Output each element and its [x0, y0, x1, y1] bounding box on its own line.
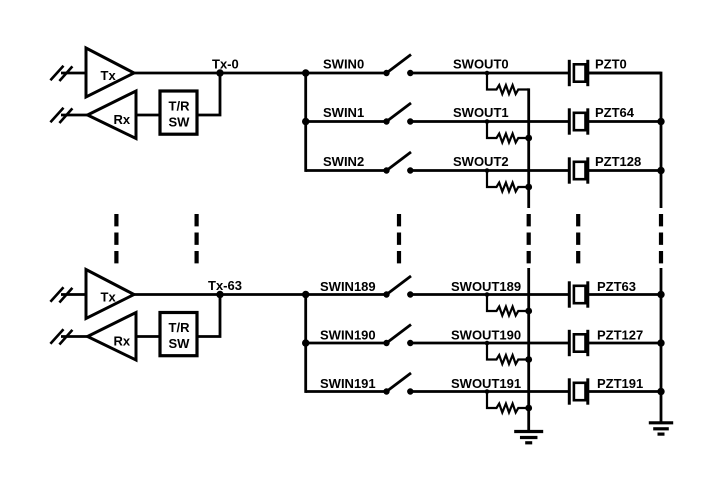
transducer PZT191 left plate	[568, 378, 571, 404]
continuation dashes amplifier column	[114, 214, 118, 264]
svg-text:PZT191: PZT191	[597, 376, 643, 391]
switch SWIN2 pole contact (left)	[383, 167, 389, 173]
svg-text:SWOUT189: SWOUT189	[451, 279, 521, 294]
transducer PZT128 right plate	[586, 157, 589, 183]
junction dot at resistor tap of R-SWOUT1	[485, 119, 490, 124]
wire bottom Rx output	[61, 335, 88, 338]
transducer PZT127 right plate	[586, 330, 589, 356]
label SWOUT2	[453, 154, 509, 169]
label SWOUT190	[451, 327, 521, 342]
svg-text:Rx: Rx	[114, 334, 131, 349]
wire SWOUT1 row from switch to transducer	[410, 120, 569, 123]
wire SWIN191 row from branch bus to switch	[306, 390, 387, 393]
switch SWIN0 lever	[387, 55, 412, 74]
wire top T/R SW to node Tx-0	[197, 73, 220, 115]
wire SWOUT190 row from switch to transducer	[410, 342, 569, 345]
continuation dashes transducer column	[576, 214, 580, 264]
label PZT63	[597, 279, 636, 294]
op-amp top Rx amp (Rx amplifier triangle)	[88, 91, 137, 139]
wire SWIN branch bus (bottom)	[304, 295, 307, 393]
svg-text:SWOUT0: SWOUT0	[453, 56, 509, 71]
bus-width slash marks on top Rx input	[50, 108, 72, 123]
label T/R SW inside top T/R SW	[169, 99, 191, 130]
wire PZT128 to right return bus	[588, 169, 661, 172]
wire resistor summing bus (bottom)	[527, 268, 530, 432]
switch SWIN190 pole contact (left)	[383, 340, 389, 346]
switch SWIN189 lever	[387, 276, 412, 295]
switch SWIN189 throw contact (right)	[407, 291, 413, 297]
continuation dashes switch column	[397, 214, 401, 264]
switch SWIN0 pole contact (left)	[383, 70, 389, 76]
junction SWIN bus row SWIN190	[302, 339, 309, 346]
resistor R-SWOUT2	[487, 171, 529, 192]
label Rx inside bottom Rx amp	[114, 334, 131, 349]
wire top Rx to T/R SW	[136, 114, 160, 117]
svg-text:Tx-63: Tx-63	[208, 278, 242, 293]
junction dot at resistor tap of R-SWOUT191	[485, 389, 490, 394]
label SWIN1	[323, 105, 364, 120]
label SWIN190	[320, 327, 376, 342]
transducer PZT63 right plate	[586, 281, 589, 307]
wire resistor summing bus (top)	[527, 88, 530, 208]
label Tx inside top Tx amp	[101, 68, 117, 83]
transducer PZT63 left plate	[568, 281, 571, 307]
transducer PZT191 right plate	[586, 378, 589, 404]
label PZT128	[595, 154, 641, 169]
wire bottom Rx to T/R SW	[136, 335, 160, 338]
label Rx inside top Rx amp	[114, 112, 131, 127]
junction summing bus at R-SWOUT190	[525, 356, 532, 363]
label SWIN0	[323, 56, 364, 71]
junction SWIN bus row SWIN189	[302, 291, 309, 298]
junction right bus at PZT128	[657, 167, 664, 174]
label SWOUT1	[453, 105, 509, 120]
wire PZT0 to right return bus	[588, 72, 661, 75]
transducer PZT128 piezo element box	[574, 162, 586, 179]
wire bottom T/R SW to node Tx-63	[197, 295, 220, 337]
transducer PZT0 right plate	[586, 60, 589, 86]
wire SWOUT2 row from switch to transducer	[410, 169, 569, 172]
T/R switch block bottom T/R SW	[160, 313, 197, 356]
svg-text:SWIN190: SWIN190	[320, 327, 376, 342]
transducer PZT64 left plate	[568, 108, 571, 134]
switch SWIN189 pole contact (left)	[383, 291, 389, 297]
wire right return bus (top)	[588, 73, 661, 208]
label PZT191	[597, 376, 643, 391]
bus-width slash marks on bottom Rx input	[50, 329, 72, 344]
resistor R-SWOUT190	[487, 343, 529, 364]
svg-text:SWIN0: SWIN0	[323, 56, 364, 71]
switch SWIN1 lever	[387, 103, 412, 122]
continuation dashes summing bus column	[527, 214, 531, 264]
continuation dashes right return bus column	[659, 214, 663, 264]
op-amp top Tx amp (Tx amplifier triangle)	[86, 48, 134, 97]
junction summing bus at R-SWOUT2	[525, 184, 532, 191]
junction right bus at PZT63	[657, 291, 664, 298]
switch SWIN190 lever	[387, 325, 412, 344]
wire SWOUT189 row from switch to transducer	[410, 293, 569, 296]
wire PZT127 to right return bus	[588, 342, 661, 345]
resistor R-SWOUT189	[487, 295, 529, 316]
label Tx inside bottom Tx amp	[101, 290, 117, 305]
svg-text:SWIN189: SWIN189	[320, 279, 376, 294]
svg-text:PZT0: PZT0	[595, 56, 627, 71]
wire SWIN branch bus (top)	[304, 73, 307, 172]
svg-text:SWOUT1: SWOUT1	[453, 105, 509, 120]
svg-text:Tx-0: Tx-0	[212, 56, 239, 71]
junction right bus at PZT64	[657, 118, 664, 125]
bus-width slash marks on top Tx input	[50, 66, 72, 81]
junction right bus at PZT127	[657, 339, 664, 346]
svg-text:SWIN1: SWIN1	[323, 105, 364, 120]
junction dot at resistor tap of R-SWOUT189	[485, 292, 490, 297]
label SWOUT189	[451, 279, 521, 294]
switch SWIN191 pole contact (left)	[383, 388, 389, 394]
junction dot at resistor tap of R-SWOUT2	[485, 168, 490, 173]
transducer PZT128 left plate	[568, 157, 571, 183]
svg-text:SWIN2: SWIN2	[323, 154, 364, 169]
svg-text:PZT127: PZT127	[597, 327, 643, 342]
svg-text:Rx: Rx	[114, 112, 131, 127]
transducer PZT191 piezo element box	[574, 383, 586, 400]
label SWIN189	[320, 279, 376, 294]
ground summing bus ground	[514, 432, 543, 443]
switch SWIN190 throw contact (right)	[407, 340, 413, 346]
switch SWIN2 lever	[387, 152, 412, 171]
switch SWIN191 lever	[387, 373, 412, 392]
switch SWIN191 throw contact (right)	[407, 388, 413, 394]
label SWIN2	[323, 154, 364, 169]
wire top Tx output to switches	[134, 72, 387, 75]
svg-text:Tx: Tx	[101, 68, 117, 83]
node Tx-0	[216, 69, 223, 76]
node Tx-63	[216, 291, 223, 298]
label T/R SW inside bottom T/R SW	[169, 320, 191, 351]
junction summing bus at R-SWOUT1	[525, 135, 532, 142]
label SWIN191	[320, 376, 376, 391]
label PZT0	[595, 56, 627, 71]
svg-text:SWIN191: SWIN191	[320, 376, 376, 391]
junction dot at resistor tap of R-SWOUT0	[485, 71, 490, 76]
transducer PZT127 piezo element box	[574, 334, 586, 351]
wire SWIN1 row from branch bus to switch	[306, 120, 387, 123]
svg-text:SWOUT190: SWOUT190	[451, 327, 521, 342]
junction dot at resistor tap of R-SWOUT190	[485, 341, 490, 346]
svg-text:PZT128: PZT128	[595, 154, 641, 169]
bus-width slash marks on bottom Tx input	[50, 287, 72, 302]
svg-text:SWOUT2: SWOUT2	[453, 154, 509, 169]
label SWOUT0	[453, 56, 509, 71]
switch SWIN2 throw contact (right)	[407, 167, 413, 173]
label Tx-0	[212, 56, 239, 71]
label SWOUT191	[451, 376, 521, 391]
junction SWIN bus row SWIN1	[302, 118, 309, 125]
resistor R-SWOUT0	[487, 73, 529, 94]
wire bottom Tx output to switches	[134, 293, 387, 296]
svg-text:SW: SW	[169, 115, 191, 130]
op-amp bottom Tx amp (Tx amplifier triangle)	[86, 270, 134, 319]
svg-text:PZT64: PZT64	[595, 105, 635, 120]
wire top Rx output	[61, 114, 88, 117]
svg-text:T/R: T/R	[169, 99, 191, 114]
ground right return bus ground	[649, 423, 673, 434]
switch SWIN0 throw contact (right)	[407, 70, 413, 76]
wire PZT191 to right return bus	[588, 390, 661, 393]
label Tx-63	[208, 278, 242, 293]
junction summing bus at R-SWOUT191	[525, 405, 532, 412]
svg-text:PZT63: PZT63	[597, 279, 636, 294]
svg-text:SW: SW	[169, 336, 191, 351]
transducer PZT127 left plate	[568, 330, 571, 356]
resistor R-SWOUT1	[487, 122, 529, 143]
wire SWOUT191 row from switch to transducer	[410, 390, 569, 393]
wire PZT64 to right return bus	[588, 120, 661, 123]
wire bottom Tx input	[61, 293, 86, 296]
op-amp bottom Rx amp (Rx amplifier triangle)	[88, 313, 137, 361]
wire top Tx input	[61, 72, 86, 75]
wire SWIN190 row from branch bus to switch	[306, 342, 387, 345]
svg-text:T/R: T/R	[169, 320, 191, 335]
transducer PZT63 piezo element box	[574, 286, 586, 303]
switch SWIN1 throw contact (right)	[407, 118, 413, 124]
junction right bus at PZT191	[657, 388, 664, 395]
switch SWIN1 pole contact (left)	[383, 118, 389, 124]
transducer PZT64 piezo element box	[574, 113, 586, 130]
svg-text:SWOUT191: SWOUT191	[451, 376, 521, 391]
transducer PZT0 left plate	[568, 60, 571, 86]
wire SWIN2 row from branch bus to switch	[306, 169, 387, 172]
label PZT64	[595, 105, 635, 120]
wire PZT63 to right return bus	[588, 293, 661, 296]
junction SWIN bus row SWIN0	[302, 69, 309, 76]
resistor R-SWOUT191	[487, 392, 529, 413]
T/R switch block top T/R SW	[160, 91, 197, 134]
label PZT127	[597, 327, 643, 342]
wire SWOUT0 row from switch to transducer	[410, 72, 569, 75]
wire right return bus (bottom)	[660, 268, 663, 423]
junction summing bus at R-SWOUT189	[525, 308, 532, 315]
transducer PZT64 right plate	[586, 108, 589, 134]
continuation dashes T/R SW column	[195, 214, 199, 264]
svg-text:Tx: Tx	[101, 290, 117, 305]
transducer PZT0 piezo element box	[574, 64, 586, 81]
